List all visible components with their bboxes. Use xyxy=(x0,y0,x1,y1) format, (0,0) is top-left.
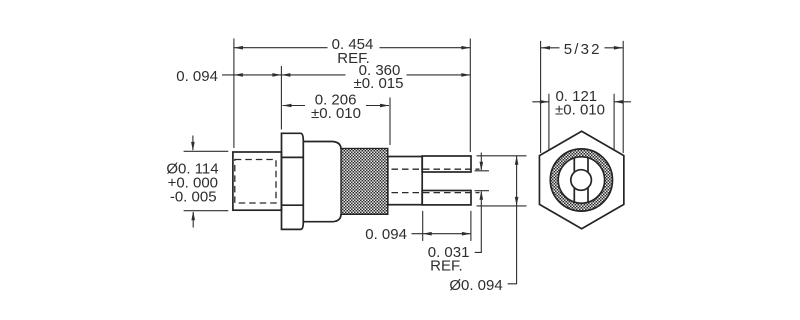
0.114 top arrow xyxy=(192,136,194,151)
extension line D pin tip xyxy=(469,39,471,153)
hex view ext lines 5/32 xyxy=(541,41,624,153)
extension line C knurl end xyxy=(389,98,391,146)
diameter 0.114 ext lines xyxy=(184,151,229,210)
slot 0.031 down arrow xyxy=(480,153,482,171)
center bore circle xyxy=(571,170,592,191)
barrel section xyxy=(303,142,341,222)
bottom pin half xyxy=(422,191,471,205)
svg-text:0. 094: 0. 094 xyxy=(176,68,218,85)
knurl section xyxy=(341,149,388,215)
nut face band lines xyxy=(282,157,304,205)
extension line B nut face xyxy=(280,66,282,130)
svg-text:-0. 005: -0. 005 xyxy=(170,189,217,206)
dim line 0.094 left / 0.360 xyxy=(222,74,470,76)
svg-text:±0. 010: ±0. 010 xyxy=(311,105,361,122)
slot ext stubs xyxy=(475,171,490,191)
0.114 bottom arrow xyxy=(192,212,194,228)
dim line 0.206 xyxy=(283,105,390,107)
svg-text:0. 094: 0. 094 xyxy=(365,226,407,243)
top pin half xyxy=(422,156,471,172)
dim line 0.454 xyxy=(234,47,470,49)
dim 5/32 xyxy=(541,47,623,49)
extension line A left body xyxy=(233,39,235,149)
knurl ring inner circle xyxy=(558,157,604,203)
hexagon end view xyxy=(539,131,623,229)
body rear cylinder xyxy=(233,152,282,210)
svg-text:±0. 015: ±0. 015 xyxy=(354,75,404,92)
svg-text:±0. 010: ±0. 010 xyxy=(555,102,605,119)
hidden bore dashed rect xyxy=(235,160,276,204)
slot 0.031 up arrow and leader xyxy=(475,192,482,253)
bottom ext line pin start xyxy=(422,211,424,241)
svg-text:Ø0. 094: Ø0. 094 xyxy=(449,277,502,294)
dim 0.121 arrows xyxy=(532,101,631,103)
dim line 0.094 bottom xyxy=(412,233,471,235)
hidden bore lines in pins xyxy=(392,169,480,192)
svg-text:REF.: REF. xyxy=(430,258,463,275)
hex view ext lines 0.121 xyxy=(549,94,614,150)
bottom ext line pin tip xyxy=(470,211,472,241)
svg-text:5/32: 5/32 xyxy=(564,41,602,58)
knurl ring outer circle xyxy=(550,149,612,211)
hex nut side view outline xyxy=(282,133,304,229)
shaft section xyxy=(388,157,422,205)
knurl ring pattern xyxy=(554,153,608,207)
slot lines end view xyxy=(574,158,588,202)
dia 0.094 dim line with leader xyxy=(508,156,517,284)
dia 0.094 ext lines xyxy=(477,156,527,206)
